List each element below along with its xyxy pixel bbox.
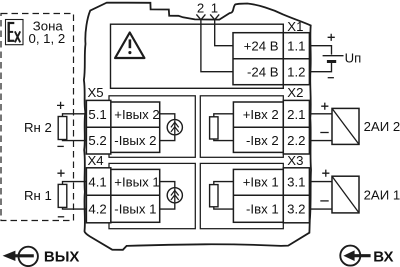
svg-text:-Iвх 1: -Iвх 1 (246, 201, 279, 216)
svg-text:-Iвых 2: -Iвых 2 (114, 133, 156, 148)
svg-text:2АИ 1: 2АИ 1 (364, 187, 400, 202)
svg-text:-Iвх 2: -Iвх 2 (246, 133, 279, 148)
svg-text:2.1: 2.1 (287, 107, 305, 122)
svg-text:4.2: 4.2 (88, 201, 106, 216)
svg-text:1.2: 1.2 (287, 64, 305, 79)
svg-text:Rн 2: Rн 2 (24, 120, 52, 135)
svg-text:X4: X4 (88, 153, 104, 168)
svg-text:-Iвых 1: -Iвых 1 (114, 201, 156, 216)
svg-text:5.2: 5.2 (88, 133, 106, 148)
svg-text:+Iвх 1: +Iвх 1 (243, 175, 279, 190)
svg-text:+Iвх 2: +Iвх 2 (243, 107, 279, 122)
svg-text:2: 2 (197, 1, 204, 16)
svg-text:Uп: Uп (345, 50, 362, 65)
svg-text:1.1: 1.1 (287, 39, 305, 54)
svg-text:X3: X3 (287, 153, 303, 168)
svg-text:+24 В: +24 В (244, 39, 279, 54)
svg-text:ВЫХ: ВЫХ (44, 248, 80, 265)
svg-text:X2: X2 (287, 85, 303, 100)
svg-text:4.1: 4.1 (88, 175, 106, 190)
svg-text:2.2: 2.2 (287, 133, 305, 148)
svg-text:5.1: 5.1 (88, 107, 106, 122)
svg-text:X1: X1 (287, 19, 303, 34)
svg-text:3.1: 3.1 (287, 175, 305, 190)
svg-text:2АИ 2: 2АИ 2 (364, 119, 400, 134)
svg-text:+Iвых 1: +Iвых 1 (114, 175, 159, 190)
svg-text:Rн 1: Rн 1 (24, 188, 52, 203)
svg-text:1: 1 (211, 1, 218, 16)
svg-text:ВХ: ВХ (373, 248, 393, 265)
svg-text:0, 1, 2: 0, 1, 2 (29, 31, 66, 46)
svg-text:+Iвых 2: +Iвых 2 (114, 107, 159, 122)
svg-text:X5: X5 (88, 85, 104, 100)
svg-text:3.2: 3.2 (287, 201, 305, 216)
svg-text:-24 В: -24 В (247, 64, 279, 79)
